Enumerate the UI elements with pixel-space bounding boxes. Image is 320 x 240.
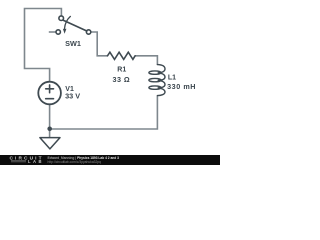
- svg-text:R1: R1: [117, 67, 126, 74]
- svg-text:http://circuitlab.com/c/3pyahu: http://circuitlab.com/c/3pyahuka32pq: [48, 160, 102, 164]
- svg-text:L1: L1: [168, 75, 176, 82]
- svg-text:LAB: LAB: [28, 159, 42, 164]
- svg-text:33 V: 33 V: [65, 91, 80, 100]
- svg-text:330 mH: 330 mH: [167, 82, 195, 91]
- svg-text:SW1: SW1: [65, 39, 81, 48]
- svg-text:33 Ω: 33 Ω: [113, 75, 130, 84]
